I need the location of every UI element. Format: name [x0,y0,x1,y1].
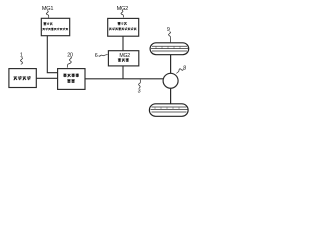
leader squiggle 8 [176,69,183,74]
text line1 第1の [43,22,52,25]
text line2 モータジェネレータ [109,27,136,30]
svg-text:9: 9 [167,27,170,33]
differential circle 8 [163,73,178,88]
svg-text:3: 3 [138,88,141,94]
wire transmission down to axle [122,66,124,79]
box MG2 transmission (MG2変速部) [108,51,138,66]
axle upper wheel [170,55,172,74]
wheel bottom (tire) [149,104,188,117]
wire MG1 L-connector to power split [47,36,57,73]
leader squiggle MG1 [46,11,48,18]
text line2 モータジェネレータ [42,28,68,31]
box power split device (動力分配機構) [58,69,85,90]
text line2 変速部 [118,58,129,61]
leader squiggle 3 [139,80,141,88]
leader squiggle MG2 [121,10,123,17]
leader squiggle 6 (horizontal) [99,55,108,57]
leader squiggle 1 [21,57,23,64]
axle lower wheel [170,88,172,104]
box U-MG1: first motor generator [41,18,69,35]
box U-MG2: second motor generator [108,18,139,36]
box engine (エンジン) [9,69,36,88]
wire engine to power split [36,77,57,79]
wire main axle to differential [85,78,164,80]
wheel top (tire) [150,43,189,55]
text line2 機構 [67,79,75,83]
svg-text:6: 6 [95,53,98,59]
leader squiggle 9 [169,32,171,43]
svg-text:20: 20 [67,52,73,58]
text エンジン [14,76,31,80]
svg-text:8: 8 [183,65,186,71]
svg-text:MG2: MG2 [119,53,130,59]
leader squiggle 20 [67,57,71,68]
wire MG2 to transmission [122,36,124,51]
text line1 第2の [118,22,127,25]
text line1 動力分配 [63,74,79,78]
